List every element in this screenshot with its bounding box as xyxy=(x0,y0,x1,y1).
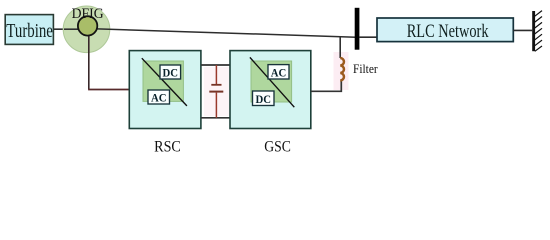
svg-text:DFIG: DFIG xyxy=(72,6,104,22)
svg-text:DC: DC xyxy=(163,67,179,80)
svg-text:AC: AC xyxy=(151,92,167,105)
svg-text:AC: AC xyxy=(271,67,287,80)
svg-text:RSC: RSC xyxy=(154,139,181,155)
svg-text:Filter: Filter xyxy=(353,61,378,76)
svg-text:DC: DC xyxy=(256,93,272,106)
svg-text:Turbine: Turbine xyxy=(6,20,53,41)
svg-text:RLC Network: RLC Network xyxy=(407,20,489,41)
svg-text:GSC: GSC xyxy=(264,139,291,155)
